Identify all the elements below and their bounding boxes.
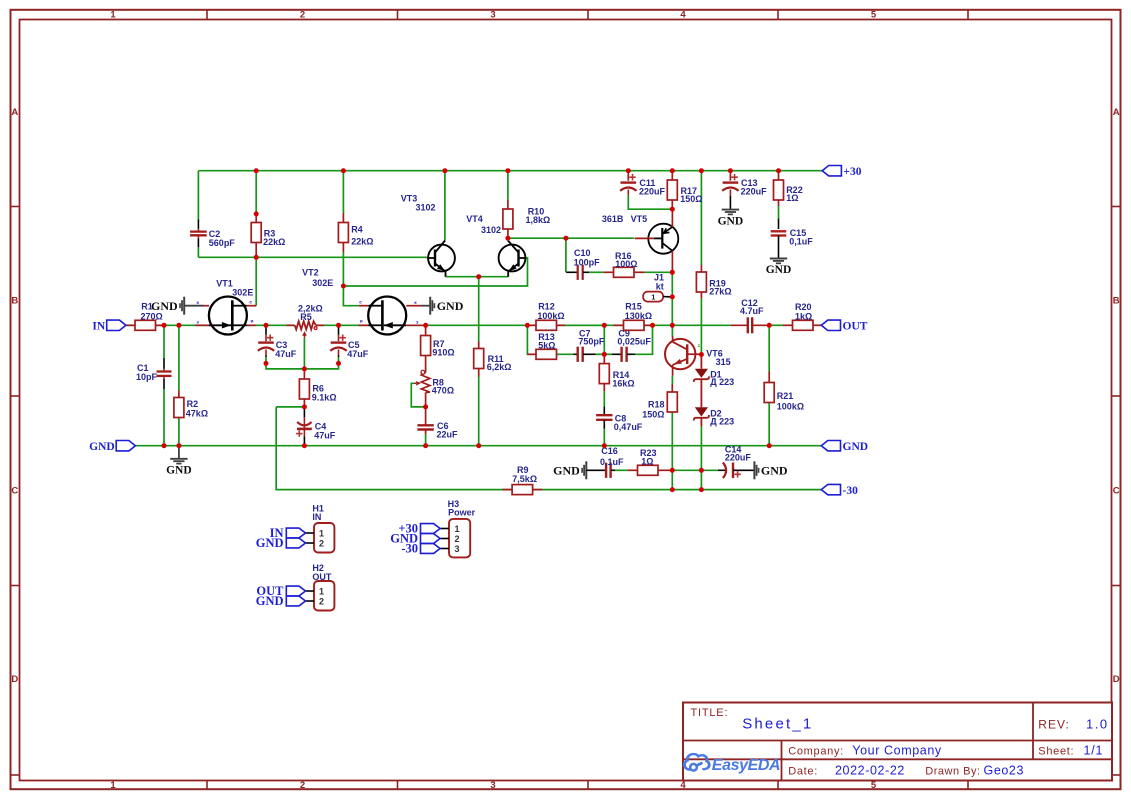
- capacitor C1: [163, 358, 165, 369]
- wire C13 branch: [729, 171, 731, 181]
- resistor R21: [768, 372, 770, 383]
- capacitor C16: [586, 469, 605, 471]
- svg-text:5: 5: [871, 9, 877, 20]
- capacitor C8: [603, 407, 605, 415]
- svg-text:4: 4: [680, 780, 686, 791]
- wire VT5 junction down to J1 and main row: [671, 272, 673, 325]
- svg-text:GND: GND: [437, 299, 464, 313]
- resistor R19: [700, 265, 702, 272]
- svg-text:OUT: OUT: [312, 572, 332, 582]
- svg-text:VT4: VT4: [466, 214, 483, 224]
- svg-text:R21: R21: [777, 391, 794, 401]
- svg-text:1.0: 1.0: [1086, 717, 1109, 732]
- port OUT: [821, 320, 840, 330]
- svg-text:130kΩ: 130kΩ: [625, 311, 652, 321]
- jumper J1: [643, 292, 663, 302]
- capacitor C3: [265, 327, 267, 335]
- resistor R18: [671, 384, 673, 392]
- wire R4 to VT4 base row: [343, 258, 527, 286]
- svg-text:5kΩ: 5kΩ: [538, 341, 555, 351]
- svg-text:D: D: [11, 674, 18, 685]
- wire R13 to C7: [557, 353, 574, 355]
- svg-text:220uF: 220uF: [639, 186, 666, 196]
- svg-text:с: с: [249, 300, 252, 305]
- connector H3: [449, 519, 470, 558]
- wire R7 branch: [425, 325, 427, 335]
- svg-text:kt: kt: [656, 281, 664, 291]
- potentiometer R8: [421, 373, 430, 393]
- resistor R11: [478, 342, 480, 349]
- svg-text:302E: 302E: [312, 278, 333, 288]
- resistor R17: [667, 180, 677, 200]
- svg-text:GND: GND: [151, 299, 178, 313]
- svg-text:EasyEDA: EasyEDA: [712, 757, 780, 774]
- wire R19 branch: [700, 171, 702, 265]
- wire VT6 collector stub: [671, 325, 673, 336]
- svg-text:Power: Power: [448, 508, 476, 518]
- svg-text:3: 3: [490, 9, 495, 20]
- svg-text:0,1uF: 0,1uF: [600, 457, 624, 467]
- svg-text:100kΩ: 100kΩ: [777, 402, 804, 412]
- wire C2 branch left: [197, 171, 199, 220]
- svg-text:REV:: REV:: [1038, 718, 1070, 732]
- svg-text:220uF: 220uF: [725, 452, 752, 462]
- wire C7 to R14 junction: [596, 353, 605, 355]
- port GND left: [116, 441, 135, 451]
- ground below C15: [770, 258, 787, 260]
- wire R2 branch: [178, 325, 180, 390]
- resistor R15: [614, 324, 624, 326]
- svg-text:910Ω: 910Ω: [432, 347, 454, 357]
- svg-text:R4: R4: [351, 225, 363, 235]
- resistor R20: [783, 324, 793, 326]
- svg-text:VT5: VT5: [631, 214, 648, 224]
- wire R3 top branch: [255, 171, 257, 214]
- wire R8 wiper: [411, 383, 425, 407]
- transistor VT4: [499, 245, 526, 272]
- capacitor C9: [604, 353, 612, 355]
- wire C6 bottom: [425, 434, 427, 446]
- ground at input: [178, 446, 180, 459]
- capacitor C13: [723, 181, 739, 183]
- capacitor C2: [197, 219, 199, 228]
- svg-text:2: 2: [300, 9, 305, 20]
- svg-text:1: 1: [651, 292, 655, 301]
- resistor R22: [774, 180, 784, 200]
- svg-text:GND: GND: [843, 441, 869, 453]
- svg-text:2022-02-22: 2022-02-22: [835, 764, 905, 778]
- svg-text:150Ω: 150Ω: [680, 194, 702, 204]
- wire gnd rail: [135, 445, 821, 447]
- ground below C13: [722, 209, 739, 211]
- wire C3 branch: [265, 325, 267, 327]
- capacitor C4: [303, 409, 305, 417]
- svg-text:1kΩ: 1kΩ: [795, 312, 812, 322]
- wire C10 branch: [565, 238, 567, 272]
- wire R14 branch: [603, 325, 605, 354]
- capacitor C11: [621, 181, 637, 183]
- svg-text:-30: -30: [401, 542, 418, 556]
- svg-text:1Ω: 1Ω: [786, 193, 798, 203]
- capacitor C10: [566, 271, 577, 273]
- wire C12 right junction to R20: [769, 324, 783, 326]
- wire R11 branch: [478, 277, 480, 342]
- svg-text:R5: R5: [300, 312, 312, 322]
- svg-text:D: D: [1113, 674, 1120, 685]
- wire R10 top branch: [507, 171, 509, 200]
- svg-text:GND: GND: [718, 215, 744, 227]
- wire C1 branch: [163, 325, 165, 358]
- port +30: [822, 166, 841, 176]
- capacitor C6: [417, 424, 433, 426]
- wire R18 chain: [671, 376, 673, 384]
- wire R16 to VT5 collector junction: [645, 271, 673, 273]
- svg-text:A: A: [1113, 107, 1120, 118]
- wire R22 branch: [778, 171, 780, 180]
- svg-text:VT2: VT2: [302, 268, 319, 278]
- wire D2 to C14 row: [700, 426, 702, 470]
- resistor R6: [299, 379, 309, 399]
- svg-text:100Ω: 100Ω: [615, 259, 637, 269]
- wire C9 to R15 right junction: [635, 325, 653, 354]
- svg-text:Geo23: Geo23: [984, 764, 1025, 778]
- ground at C14: [753, 461, 755, 479]
- svg-text:GND: GND: [166, 465, 192, 477]
- svg-text:3: 3: [454, 544, 459, 554]
- ground at VT2 case: [421, 305, 430, 307]
- svg-text:Your Company: Your Company: [852, 744, 942, 758]
- transistor VT3: [428, 245, 455, 272]
- svg-text:100kΩ: 100kΩ: [537, 311, 564, 321]
- svg-text:0,47uF: 0,47uF: [614, 422, 643, 432]
- wire C8 bottom: [603, 429, 605, 446]
- svg-text:Date:: Date:: [788, 766, 818, 778]
- svg-text:470Ω: 470Ω: [432, 385, 454, 395]
- wire R18 to -30 row: [671, 470, 673, 489]
- junction dots: [254, 168, 259, 173]
- svg-text:и: и: [360, 319, 363, 324]
- wire R3 bottom to VT1 drain: [255, 257, 257, 305]
- svg-text:2: 2: [454, 534, 459, 544]
- wire +30 top rail: [198, 170, 822, 172]
- svg-text:C: C: [1113, 486, 1120, 497]
- wire VT3-VT4 emitters row: [446, 276, 509, 278]
- resistor R10: [507, 208, 509, 210]
- svg-text:Д 223: Д 223: [710, 377, 734, 387]
- svg-text:47uF: 47uF: [314, 431, 336, 441]
- wire VT3 collector: [444, 171, 446, 241]
- svg-text:1: 1: [319, 586, 324, 596]
- wire R7 to R8: [425, 356, 427, 373]
- svg-text:0,025uF: 0,025uF: [617, 337, 651, 347]
- wire C16 R23 row: [615, 469, 628, 471]
- svg-text:220uF: 220uF: [741, 186, 768, 196]
- svg-text:Д 223: Д 223: [710, 416, 734, 426]
- svg-text:и: и: [251, 319, 254, 324]
- svg-text:A: A: [11, 107, 18, 118]
- wire R5 wiper down to R6: [303, 338, 305, 369]
- svg-text:10pF: 10pF: [136, 372, 158, 382]
- diode D1: [700, 355, 702, 369]
- wire VT4 collector to VT5 base: [508, 237, 634, 239]
- svg-text:Company:: Company:: [788, 746, 844, 758]
- svg-text:IN: IN: [92, 321, 105, 333]
- svg-text:2: 2: [319, 538, 324, 548]
- port GND right: [821, 441, 840, 451]
- port IN: [107, 320, 126, 330]
- svg-text:3102: 3102: [481, 225, 501, 235]
- svg-text:0,1uF: 0,1uF: [789, 237, 813, 247]
- capacitor C7: [574, 353, 578, 355]
- svg-text:C: C: [11, 486, 18, 497]
- wire VT2 gate to R7 junction: [423, 324, 425, 326]
- svg-text:GND: GND: [89, 441, 115, 453]
- resistor R13: [527, 353, 536, 355]
- svg-text:OUT: OUT: [843, 321, 868, 333]
- ground at C16: [585, 461, 587, 479]
- svg-text:1: 1: [319, 528, 324, 538]
- transistor VT6: [665, 339, 695, 369]
- svg-text:150Ω: 150Ω: [642, 409, 664, 419]
- wire C14 row: [672, 469, 701, 471]
- wire C11 branch: [627, 171, 629, 181]
- svg-text:6,2kΩ: 6,2kΩ: [487, 362, 512, 372]
- svg-text:560pF: 560pF: [209, 238, 236, 248]
- wire R12 R13 left junction: [527, 325, 536, 354]
- EasyEDA logo: [684, 754, 709, 770]
- svg-text:47uF: 47uF: [275, 349, 297, 359]
- svg-text:315: 315: [716, 357, 731, 367]
- svg-text:IN: IN: [312, 512, 321, 522]
- svg-text:7,5kΩ: 7,5kΩ: [512, 474, 537, 484]
- wire R17 branch: [671, 171, 673, 180]
- wire C2-R3 bottom row to VT3 base: [198, 256, 427, 258]
- svg-text:1: 1: [454, 524, 459, 534]
- ground at VT1 case: [184, 305, 203, 307]
- diode D2: [695, 407, 708, 416]
- svg-text:1: 1: [110, 9, 116, 20]
- transistor VT5: [648, 224, 678, 254]
- transistor VT1: [209, 297, 247, 335]
- resistor R1: [127, 324, 136, 326]
- svg-text:TITLE:: TITLE:: [691, 707, 729, 719]
- capacitor C15: [778, 219, 780, 229]
- wire -30 row: [533, 489, 822, 491]
- transistor VT2: [368, 297, 406, 335]
- svg-text:302E: 302E: [232, 287, 253, 297]
- svg-text:750pF: 750pF: [578, 337, 605, 347]
- svg-text:GND: GND: [553, 464, 580, 478]
- capacitor C14: [718, 469, 725, 471]
- svg-text:Drawn By:: Drawn By:: [925, 766, 980, 778]
- svg-text:VT1: VT1: [216, 278, 233, 288]
- resistor R9: [502, 489, 512, 491]
- resistor R14: [603, 354, 605, 363]
- wire R21 branch: [768, 325, 770, 371]
- resistor R16: [604, 271, 614, 273]
- svg-text:GND: GND: [256, 594, 284, 608]
- wire R4 branch: [342, 171, 344, 213]
- svg-text:R20: R20: [795, 302, 812, 312]
- wire R12 right to junction: [565, 324, 604, 326]
- svg-text:1/1: 1/1: [1084, 744, 1104, 758]
- svg-text:4: 4: [680, 9, 686, 20]
- resistor R23: [628, 469, 638, 471]
- svg-text:R18: R18: [648, 399, 665, 409]
- wire main signal row: [126, 324, 135, 326]
- wire feedback from R6 junction: [276, 406, 304, 408]
- svg-text:22kΩ: 22kΩ: [263, 237, 285, 247]
- svg-text:2: 2: [319, 596, 324, 606]
- svg-text:1: 1: [110, 780, 116, 791]
- svg-text:22kΩ: 22kΩ: [351, 236, 373, 246]
- svg-text:47kΩ: 47kΩ: [186, 409, 208, 419]
- svg-text:GND: GND: [256, 536, 284, 550]
- wire C5 branch: [338, 325, 340, 327]
- svg-text:1,8kΩ: 1,8kΩ: [526, 215, 551, 225]
- svg-text:Sheet_1: Sheet_1: [742, 716, 813, 733]
- wire R8 bottom to C6: [425, 393, 427, 425]
- svg-text:1Ω: 1Ω: [641, 457, 653, 467]
- svg-text:9.1kΩ: 9.1kΩ: [312, 392, 337, 402]
- svg-text:+30: +30: [843, 166, 861, 178]
- title block: [683, 703, 1112, 781]
- svg-text:5: 5: [871, 780, 877, 791]
- capacitor C12: [731, 324, 748, 326]
- svg-text:с: с: [359, 300, 362, 305]
- svg-text:27kΩ: 27kΩ: [709, 286, 731, 296]
- resistor R3: [255, 214, 257, 223]
- svg-text:16kΩ: 16kΩ: [612, 379, 634, 389]
- svg-text:-30: -30: [843, 485, 859, 497]
- svg-text:B: B: [11, 296, 18, 307]
- svg-text:270Ω: 270Ω: [141, 312, 163, 322]
- svg-text:361B: 361B: [602, 214, 624, 224]
- svg-text:2: 2: [300, 780, 305, 791]
- resistor R7: [421, 336, 431, 356]
- port -30: [821, 484, 840, 494]
- resistor R2: [178, 391, 180, 398]
- svg-text:B: B: [1113, 296, 1120, 307]
- svg-text:4.7uF: 4.7uF: [740, 306, 764, 316]
- resistor R4: [342, 222, 344, 224]
- svg-text:22uF: 22uF: [437, 430, 459, 440]
- svg-text:3: 3: [490, 780, 495, 791]
- capacitor C5: [338, 327, 340, 335]
- svg-text:Sheet:: Sheet:: [1038, 746, 1074, 758]
- svg-text:GND: GND: [761, 464, 788, 478]
- potentiometer R5: [287, 324, 295, 326]
- svg-text:100pF: 100pF: [574, 257, 601, 267]
- connector H2: [314, 581, 334, 611]
- connector H1: [314, 523, 334, 553]
- svg-text:3102: 3102: [416, 202, 436, 212]
- resistor R12: [527, 324, 536, 326]
- svg-text:GND: GND: [766, 264, 792, 276]
- wire feedback down to -30 row: [276, 407, 512, 490]
- wire D chain to -30: [700, 470, 702, 489]
- svg-text:47uF: 47uF: [347, 349, 369, 359]
